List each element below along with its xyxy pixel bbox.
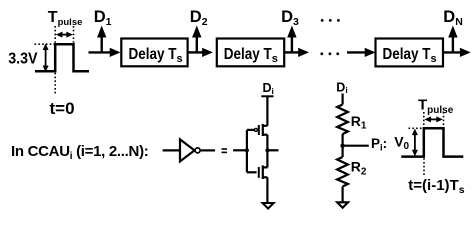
arrowhead into delay 2 [202,48,213,57]
transistor Q1 PMOS gate bubble [254,128,257,131]
wire CMOS input [233,149,247,151]
tap arrow DN [448,26,457,53]
tap arrow D1 [97,26,106,53]
wire R1 to node Pi [342,134,344,146]
wire PMOS gate lead [247,129,254,131]
transistor Q2 NMOS channel bar [262,165,264,179]
ground (divider) [337,202,348,208]
wire R2 to ground [342,187,344,203]
wire gate bus [246,130,248,172]
inverter U1 bubble [195,148,200,153]
delay block N [376,39,444,67]
dimension dotted line right edge [73,26,75,43]
tap arrow D2 [192,26,201,53]
inverter U1 output wire [201,149,216,151]
wire final output [443,51,462,53]
arrowhead into last delay [365,48,376,57]
resistor R1 [337,105,348,135]
transistor Q1 PMOS drain lead [263,134,268,136]
transistor Q2 NMOS drain lead [263,166,268,168]
delay block 2 [217,39,284,67]
svg-text:Pi:: Pi: [371,136,387,154]
wire delay2 output [284,51,300,53]
dotted level line output top [409,127,423,129]
output pulse waveform [401,128,463,156]
wire Di to R1 [342,94,344,105]
wire node Pi to R2 [342,146,344,157]
transistor Q1 PMOS source lead [263,125,268,127]
inverter U1 triangle [180,139,195,161]
arrowhead delay2 output [298,48,309,57]
tap arrow D3 [287,26,296,53]
wire delay1 to delay2 [188,51,204,53]
svg-text:3.3V: 3.3V [8,51,38,68]
ellipsis top row [321,19,340,22]
wire into last delay [347,51,366,53]
junction input node [245,148,249,152]
svg-text:In CCAUi (i=1, 2...N):: In CCAUi (i=1, 2...N): [11,143,148,162]
delay block 1 [121,39,187,67]
wire Di to PMOS source [266,96,268,126]
svg-text:Delay Ts: Delay Ts [129,46,183,65]
svg-text:Delay Ts: Delay Ts [224,46,278,65]
svg-text:t=(i-1)Ts: t=(i-1)Ts [408,177,464,196]
wire NMOS source to ground [266,177,268,203]
svg-text:Delay Ts: Delay Ts [383,46,437,65]
ground (CMOS) [263,203,274,209]
wire PMOS drain to NMOS drain [266,135,268,168]
svg-text:t=0: t=0 [50,99,75,118]
arrowhead final output [460,48,471,57]
Tpulse output width double arrow [424,116,443,122]
ellipsis signal row [320,52,339,55]
dotted time reference output [423,158,425,177]
3.3V amplitude double arrow [43,43,49,72]
transistor Q2 NMOS source lead [263,176,268,178]
dimension dotted line left edge [54,26,56,43]
dimension dotted line output left [423,112,425,127]
junction output node [265,148,269,152]
Tpulse width double arrow [56,32,73,38]
wire input to first delay [89,51,112,53]
input pulse waveform [35,44,89,71]
wire node Pi stub [343,145,369,147]
dimension dotted line output right [443,112,445,127]
transistor Q2 NMOS gate bar [258,167,260,178]
equals sign [222,148,228,153]
junction node Pi [340,144,344,148]
Di terminal bar [261,95,273,97]
transistor Q1 PMOS gate bar [258,125,260,135]
transistor Q1 PMOS channel bar [262,124,264,136]
inverter U1 input wire [163,149,180,151]
arrowhead into delay 1 [110,48,121,57]
resistor R2 [337,157,348,187]
dotted level line to pulse top [35,43,55,45]
dotted time reference line t=0 [54,73,56,96]
transistor Q2 NMOS gate lead [247,171,257,173]
wire CMOS output [267,149,278,151]
V0 amplitude double arrow [412,129,418,157]
